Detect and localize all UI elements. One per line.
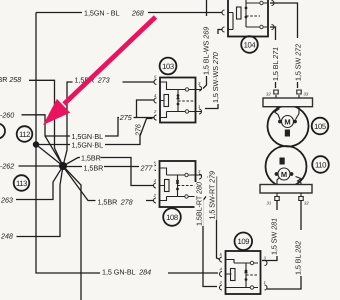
wire 263 bbox=[16, 166, 63, 200]
svg-text:1,5BR 278: 1,5BR 278 bbox=[98, 197, 133, 206]
svg-text:105: 105 bbox=[314, 122, 326, 131]
connector circle at left edge (cut) bbox=[0, 124, 5, 139]
svg-text:32: 32 bbox=[304, 201, 309, 206]
relay U109 internals bbox=[226, 260, 259, 290]
svg-text:263: 263 bbox=[0, 195, 13, 204]
label 1,5 SW-RT 279 bbox=[208, 171, 217, 220]
svg-text:1,5 BL-WS 269: 1,5 BL-WS 269 bbox=[202, 27, 211, 75]
connector circle 109 bbox=[235, 233, 253, 251]
wire 1,5BR to relay 108 middle pin bbox=[63, 158, 153, 186]
label -260 bbox=[0, 110, 14, 119]
svg-text:1,5 SW 272: 1,5 SW 272 bbox=[294, 44, 303, 81]
svg-text:33: 33 bbox=[304, 92, 309, 97]
svg-text:104: 104 bbox=[244, 40, 257, 49]
horn 110 pins 31 32 bbox=[267, 193, 310, 206]
svg-text:M: M bbox=[284, 117, 290, 126]
svg-text:1,5 SW-WS 270: 1,5 SW-WS 270 bbox=[211, 52, 220, 103]
svg-text:1,5BR: 1,5BR bbox=[81, 154, 101, 163]
wire to bottom edge bbox=[63, 166, 81, 300]
svg-text:109: 109 bbox=[237, 237, 249, 246]
relay U109 pins bbox=[219, 252, 268, 290]
label 276 rotated bbox=[134, 124, 143, 137]
svg-text:1,5GN·BL: 1,5GN·BL bbox=[72, 141, 104, 150]
label 1,5BL-RT 280 bbox=[195, 182, 204, 226]
connector circle 104 bbox=[241, 36, 258, 53]
wire -260 bbox=[22, 115, 64, 166]
wire 248 bbox=[17, 166, 64, 237]
horn motor 105 body bbox=[263, 98, 313, 147]
label 275 bbox=[119, 113, 134, 122]
label 263 bbox=[0, 195, 13, 204]
svg-text:112: 112 bbox=[19, 130, 30, 139]
wire 1,5 SW 281 from horn 110 to relay 109 bbox=[262, 200, 277, 261]
label 1,5BR 273 bbox=[73, 75, 123, 85]
label 1,5 BL-WS 269 bbox=[202, 16, 211, 76]
wire 1,5GN-BL / 275 branch to relay 103 middle pin bbox=[45, 100, 154, 136]
wire main bus GN-BL from top-left down to 284 bbox=[36, 13, 218, 274]
svg-text:103: 103 bbox=[162, 62, 174, 71]
connector circle 108 bbox=[163, 208, 181, 226]
svg-text:1,5 GN-BL 284: 1,5 GN-BL 284 bbox=[102, 268, 151, 277]
label 1,5 GN-BL 284 bbox=[100, 267, 168, 277]
label BR 258 bbox=[0, 75, 21, 84]
svg-text:-262: -262 bbox=[0, 162, 14, 171]
node junction dot on main bus bbox=[33, 141, 39, 147]
relay U103 pins bbox=[153, 75, 202, 121]
wire 1,5 SW 272 from relay 104 to horn 105 bbox=[270, 3, 298, 88]
svg-text:1,5GN - BL: 1,5GN - BL bbox=[84, 9, 120, 18]
svg-text:1: 1 bbox=[264, 280, 266, 285]
svg-text:108: 108 bbox=[166, 213, 178, 222]
relay U108 pins bbox=[153, 161, 202, 204]
wire 270 from relay 104 to relay 103 bbox=[205, 30, 223, 109]
label 1,5BR (upper, to middle pin) bbox=[80, 154, 101, 163]
node star junction bbox=[59, 162, 67, 170]
label 1,5BR 278 bbox=[96, 197, 147, 207]
svg-text:1,5 SW 281: 1,5 SW 281 bbox=[270, 218, 279, 255]
connector circle 113 bbox=[14, 175, 30, 191]
wire -262 bbox=[19, 165, 62, 167]
horn motor 110 body bbox=[260, 146, 312, 193]
label 1,5 BL 282 bbox=[294, 230, 303, 276]
svg-text:1,5 BL 282: 1,5 BL 282 bbox=[294, 241, 303, 275]
label 1,5 SW 272 bbox=[294, 38, 303, 82]
wire 1,5 BL 271 from relay 104 to horn 105 bbox=[270, 27, 276, 88]
relay U108 box bbox=[160, 161, 196, 207]
svg-text:110: 110 bbox=[315, 160, 326, 169]
wire 1,5 SW-RT 279 from relay 108 to relay 109 bbox=[207, 177, 220, 260]
label 1,5 BL 271 bbox=[271, 40, 280, 82]
svg-text:1,5BR: 1,5BR bbox=[84, 164, 104, 173]
wire 1,5GN-BL 268 top horizontal bbox=[36, 12, 222, 14]
svg-text:BR 258: BR 258 bbox=[0, 75, 21, 84]
svg-text:32: 32 bbox=[266, 92, 271, 97]
svg-text:1,5 SW-RT 279: 1,5 SW-RT 279 bbox=[208, 171, 217, 220]
svg-text:268: 268 bbox=[131, 8, 144, 17]
wire diagonal from junction dot to star node bbox=[36, 145, 63, 167]
magenta pointer arrow bbox=[43, 17, 156, 125]
svg-text:M: M bbox=[281, 170, 287, 179]
label 1,5 SW-WS 270 bbox=[211, 34, 220, 104]
svg-text:277: 277 bbox=[140, 164, 154, 173]
relay U108 internals bbox=[160, 168, 203, 201]
svg-text:31: 31 bbox=[267, 201, 272, 206]
svg-text:275: 275 bbox=[119, 113, 133, 122]
svg-text:1,5BL-RT 280: 1,5BL-RT 280 bbox=[195, 182, 204, 226]
wire 1,5 BL 282 from horn 110 to relay 109 bbox=[267, 200, 301, 289]
svg-text:1,5 BL 271: 1,5 BL 271 bbox=[271, 47, 280, 81]
wire 1,5BR 278 to relay 108 bottom pin bbox=[63, 167, 153, 201]
connector circle 110 bbox=[312, 156, 329, 173]
wire BR 258 bbox=[29, 80, 63, 166]
label 248 bbox=[0, 232, 13, 241]
relay U104 internals bbox=[228, 0, 267, 30]
wire 1,5GN-BL / 276 branch from junction dot to relay 103 bottom pin bbox=[36, 119, 153, 145]
svg-text:-260: -260 bbox=[0, 110, 14, 119]
connector circle 105 bbox=[312, 118, 329, 135]
label -262 bbox=[0, 162, 14, 171]
relay U103 internals bbox=[160, 82, 202, 118]
label 1,5 SW 281 bbox=[270, 210, 279, 256]
wire 1,5BL-RT 280 from relay 108 to relay 109 bbox=[203, 197, 217, 287]
horn 105 pins 32 33 bbox=[266, 90, 309, 98]
label 1,5BR (on 277 line) bbox=[82, 163, 104, 173]
relay U103 box bbox=[160, 78, 196, 123]
connector circle 112 bbox=[17, 126, 33, 142]
wire 1,5BR 273 to relay 103 bbox=[63, 82, 154, 167]
relay U104 box (cut at top) bbox=[228, 0, 268, 37]
svg-text:276: 276 bbox=[134, 124, 143, 137]
horn 105 internals bbox=[275, 107, 300, 137]
wire 1,5BR 277 to relay 108 top pin bbox=[63, 166, 153, 168]
svg-text:113: 113 bbox=[16, 179, 27, 188]
relay U109 box bbox=[226, 251, 261, 294]
svg-text:1: 1 bbox=[198, 104, 200, 109]
wire 269 vertical stub from top edge to relay 103 bbox=[203, 0, 207, 89]
svg-text:248: 248 bbox=[0, 232, 13, 241]
horn 110 internals bbox=[275, 158, 301, 185]
label 1,5GN-BL 268 bbox=[82, 8, 148, 18]
label 1,5GN-BL (second) bbox=[70, 141, 105, 150]
connector circle 103 bbox=[160, 58, 177, 75]
label 1,5GN-BL (first) bbox=[70, 132, 105, 141]
label 277 bbox=[139, 163, 155, 172]
relay U104 pins bbox=[222, 1, 274, 33]
